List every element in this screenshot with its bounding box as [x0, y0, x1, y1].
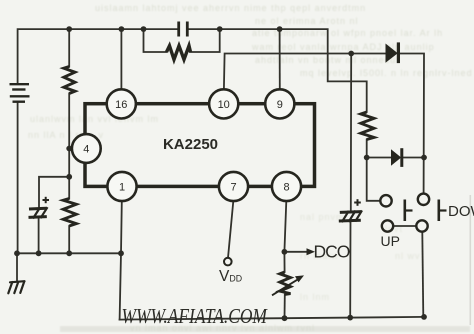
wire UP switch branch [367, 158, 381, 201]
wire battery negative down [17, 102, 19, 253]
R4 wiper arrow [272, 275, 304, 295]
ground [8, 281, 24, 293]
wire D2 cathode [402, 157, 424, 159]
svg-text:DCO: DCO [314, 242, 350, 262]
battery B1 [10, 84, 30, 102]
wire DCO arrow line [284, 251, 309, 253]
wire top rail right of C1 [188, 29, 367, 112]
wire pin10 riser and D1 rail [224, 54, 386, 90]
wire D2 anode [367, 157, 391, 159]
wire bottom rail [120, 317, 424, 320]
node RC right/top rail [217, 26, 223, 32]
resistor R1 [64, 67, 75, 94]
svg-text:nal pnvm: nal pnvm [300, 212, 345, 222]
diode D2 [391, 148, 402, 167]
svg-text:KA2250: KA2250 [163, 136, 218, 153]
node pin9/top rail [277, 26, 283, 32]
resistor R5 (osc) [167, 46, 191, 60]
plus C2 [43, 197, 50, 203]
Vdd terminal [224, 258, 232, 266]
wire bottom-left rail [17, 252, 121, 254]
wire pin1 down [120, 201, 122, 319]
pin 8 [272, 172, 301, 201]
pin 7 [219, 172, 248, 201]
wire pin7 to Vdd terminal [228, 201, 233, 258]
wire DOWN switch down to rail [422, 232, 423, 317]
node RC left/top rail [141, 26, 147, 32]
svg-text:7: 7 [230, 182, 236, 194]
pin 1 [107, 172, 136, 201]
svg-text:mq levelvp. l500l. n ln regnlr: mq levelvp. l500l. n ln regnlrv-lned [300, 68, 473, 78]
node C2/bottom-left rail [36, 250, 42, 256]
switch S2 DOWN [416, 194, 446, 232]
svg-text:ulanlwvm lan vvl lenvm lm: ulanlwvm lan vvl lenvm lm [30, 114, 159, 124]
node pin8/DCO [282, 249, 288, 255]
IC body KA2250 [85, 104, 315, 187]
svg-text:UP: UP [381, 233, 400, 249]
wire R1 top [68, 29, 70, 66]
wire C2 branch [39, 177, 69, 207]
node R2/bottom-left rail [66, 250, 72, 256]
wire RC right stub [190, 29, 220, 52]
svg-text:8: 8 [283, 182, 289, 194]
switch S1 UP [380, 195, 412, 232]
pin 16 [107, 89, 136, 118]
wire switch bottoms [393, 225, 416, 227]
resistor R4 variable [280, 272, 291, 295]
wire RC left stub [144, 29, 167, 52]
capacitor C3 electrolytic [339, 210, 362, 222]
node C3/bottom rail [347, 315, 353, 321]
node R3/D2/UP [364, 155, 370, 161]
svg-text:nl wv: nl wv [395, 251, 421, 261]
node DOWN/bottom rail [421, 314, 427, 320]
wire pin9 stub [279, 29, 281, 89]
pin 10 [209, 89, 238, 118]
capacitor C1 [179, 22, 188, 37]
svg-text:DOWN: DOWN [448, 203, 474, 220]
wire ground stub [16, 253, 18, 281]
wire R4 bottom [284, 295, 286, 319]
wire top rail left of C1 [18, 29, 179, 84]
wire C2 bottom [38, 219, 40, 253]
wire R2 bottom [68, 226, 70, 253]
svg-text:WWW.AFIATA.COM: WWW.AFIATA.COM [122, 306, 268, 329]
svg-text:ln lnm: ln lnm [300, 292, 330, 302]
wire R1 bottom to R2 top [68, 94, 70, 199]
node D2/right rail [421, 155, 427, 161]
wire D1 cathode to right rail [398, 54, 424, 194]
svg-text:uislaamn lahtomj vee aherrvn n: uislaamn lahtomj vee aherrvn nime thp qe… [95, 3, 366, 13]
wire pin8 down [284, 201, 286, 272]
wire pin16 stub [120, 29, 122, 89]
node battery/ground [14, 250, 20, 256]
svg-text:9: 9 [277, 99, 283, 111]
resistor R3 [361, 112, 374, 140]
svg-text:wam reol vanla wrnpa ADJ alp a: wam reol vanla wrnpa ADJ alp aunlip [251, 42, 435, 52]
pin 9 [265, 89, 294, 118]
node R1/top rail [66, 26, 72, 32]
node C3/D1 rail [348, 51, 354, 57]
svg-text:10: 10 [218, 99, 230, 111]
wire R3 bottom [366, 140, 368, 158]
wire C3 bottom [349, 222, 351, 318]
node R4/bottom rail [282, 315, 288, 321]
resistor R2 [63, 199, 76, 227]
node pin16/top rail [119, 26, 125, 32]
svg-text:1: 1 [119, 182, 125, 194]
plus C3 [354, 199, 361, 206]
wire C3 top [350, 54, 352, 212]
node pin4/R ladder [66, 146, 72, 152]
svg-text:4: 4 [83, 144, 89, 156]
svg-text:16: 16 [115, 99, 127, 111]
svg-text:ne ol erimna Arotn nl: ne ol erimna Arotn nl [255, 16, 359, 26]
capacitor C2 electrolytic [29, 207, 48, 218]
pin 4 [72, 134, 101, 163]
node C2 branch/R ladder [66, 174, 72, 180]
diode D1 [386, 42, 399, 63]
DCO arrowhead [307, 248, 316, 255]
node pin1/bottom-left rail [118, 250, 124, 256]
